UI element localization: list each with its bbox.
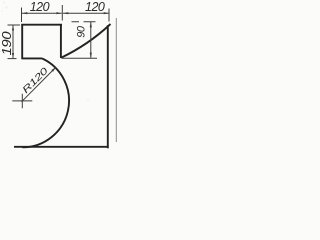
outline: R120 arc	[22, 58, 69, 147]
dim: left extension of top-left 120	[21, 8, 23, 23]
faint scan line at right edge	[115, 18, 117, 142]
dim: 190 top extension	[8, 24, 21, 26]
dim: 90 top extension	[72, 21, 96, 23]
background	[0, 0, 117, 154]
dim line 90 vertical	[90, 22, 92, 58]
dim: middle extension between 120s	[61, 5, 63, 21]
outline: left edge	[21, 24, 23, 59]
outline: notch diagonal	[61, 24, 111, 58]
outline: bottom edge	[14, 146, 109, 148]
svg-text:120: 120	[85, 0, 105, 14]
outline: small horizontal at arc top	[21, 57, 42, 59]
outline: right edge	[107, 25, 109, 148]
svg-text:90: 90	[76, 25, 88, 38]
dim line 190 vertical	[12, 25, 14, 58]
dim line 120 right	[63, 12, 109, 14]
dim: 90 bottom extension	[62, 57, 97, 59]
dim: right extension of top-right 120	[108, 9, 110, 22]
dim line 120 left	[22, 12, 62, 14]
R120 leader line	[22, 68, 56, 102]
R120 center cross	[12, 94, 32, 109]
outline: notch vertical	[60, 25, 62, 59]
paper specks	[3, 2, 5, 4]
outline: top edge	[21, 24, 62, 26]
svg-text:190: 190	[0, 31, 14, 55]
svg-text:120: 120	[30, 0, 50, 14]
dim: 190 bottom extension	[8, 58, 17, 60]
